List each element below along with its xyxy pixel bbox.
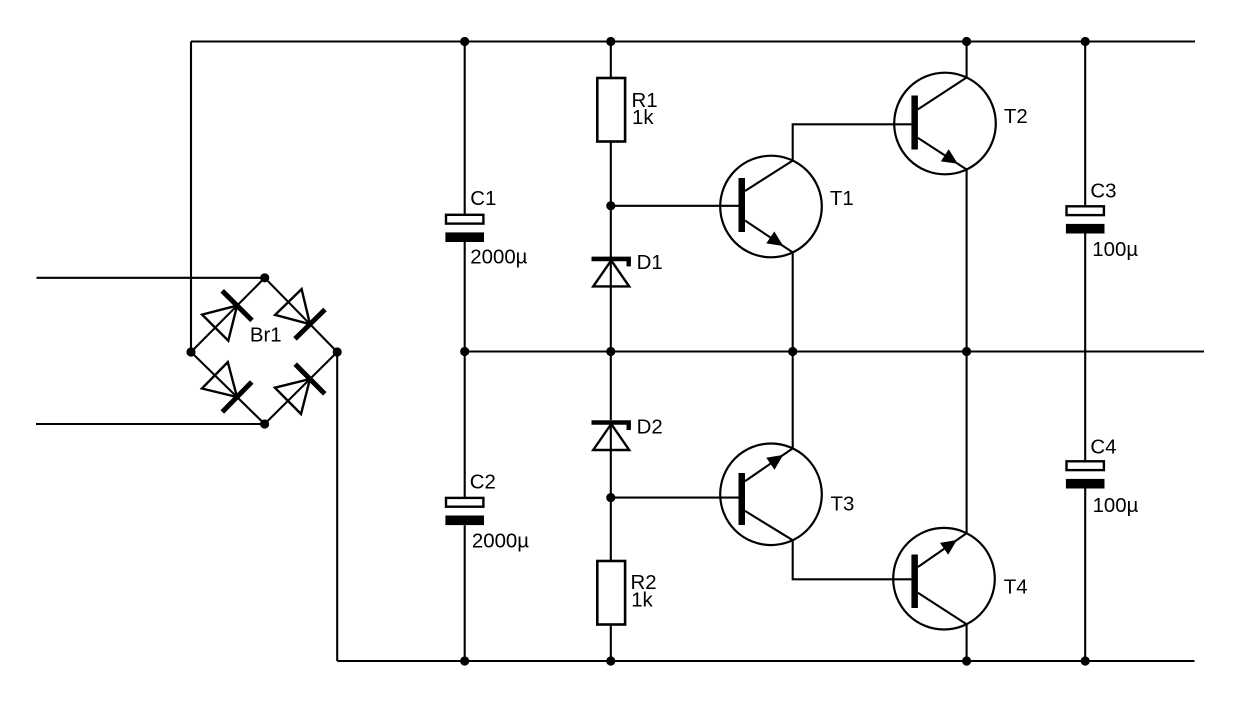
zener diode D2 [592, 423, 631, 451]
svg-text:C2: C2 [470, 472, 496, 494]
svg-text:1k: 1k [632, 107, 654, 129]
svg-text:100µ: 100µ [1092, 239, 1138, 261]
node: bridge left (+ output) [186, 347, 195, 356]
capacitor C4 [1066, 461, 1105, 488]
svg-text:C3: C3 [1090, 180, 1116, 202]
junction: middle rail / T2 emitter / T4 [962, 347, 971, 356]
capacitor C2 [445, 498, 484, 525]
resistor R1 [597, 78, 625, 142]
svg-text:2000µ: 2000µ [470, 247, 527, 269]
bridge rectifier Br1 diode (left to top) [202, 291, 252, 341]
wire: T3 base from D2 junction [611, 497, 739, 499]
svg-text:T4: T4 [1004, 577, 1028, 599]
svg-text:2000µ: 2000µ [472, 531, 529, 553]
junction: bottom rail / T4 emitter [962, 656, 971, 665]
junction: bottom rail / C2 [460, 656, 469, 665]
wire: C4 to bottom rail [1084, 489, 1086, 662]
wire: top positive rail [191, 40, 1195, 42]
wire: T3 collector up to middle rail [792, 352, 794, 449]
junction: middle rail / T1 emitter / T3 [788, 347, 797, 356]
wire: AC input 2 [36, 423, 265, 425]
svg-text:T2: T2 [1004, 106, 1028, 128]
junction: bottom rail / R2 [606, 656, 615, 665]
bridge rectifier Br1 diode (bottom to right) [275, 364, 325, 414]
svg-text:D1: D1 [637, 252, 663, 274]
transistor T4 [893, 528, 995, 630]
capacitor C1 [445, 215, 484, 242]
svg-text:Br1: Br1 [250, 325, 282, 347]
wire: bridge edge top-right [265, 278, 338, 352]
junction: bottom rail / C4 [1081, 656, 1090, 665]
svg-text:1k: 1k [631, 590, 653, 612]
wire: C1 to middle rail to C2 [464, 242, 466, 498]
svg-text:100µ: 100µ [1093, 495, 1139, 517]
node: bridge top (AC input 1) [260, 273, 269, 282]
junction: top rail / T2 collector [962, 37, 971, 46]
junction: top rail / R1 [606, 37, 615, 46]
wire: bottom negative rail [337, 660, 1194, 662]
wire: top rail to C3 [1084, 42, 1086, 207]
wire: T1 emitter down to middle rail [792, 252, 794, 351]
wire: bridge edge bottom-right [265, 352, 338, 424]
junction: D2-R2 / T3 base [606, 493, 615, 502]
zener diode D1 [592, 259, 631, 287]
wire: left vertical from bridge + node to top rail [190, 42, 192, 353]
junction: top rail / C3 [1081, 37, 1090, 46]
wire: C3 to C4 (crosses middle rail) [1084, 234, 1086, 462]
node: bridge bottom (AC input 2) [260, 419, 269, 428]
resistor R2 [597, 561, 625, 625]
transistor T3 [720, 444, 822, 546]
junction: middle rail / C1-C2 [460, 347, 469, 356]
wire: T4 emitter down to bottom rail [966, 624, 968, 661]
transistor T2 [894, 73, 996, 175]
svg-text:D2: D2 [637, 417, 663, 439]
wire: AC input 1 [37, 277, 265, 279]
bridge rectifier Br1 diode (left to bottom) [202, 362, 252, 412]
transistor T1 [720, 156, 822, 258]
wire: top rail to C1 [464, 42, 466, 215]
capacitor C3 [1066, 206, 1105, 233]
svg-text:C4: C4 [1090, 437, 1116, 459]
wire: right vertical from bridge - node to bottom rail [336, 352, 338, 661]
svg-text:T1: T1 [830, 188, 854, 210]
wire: T4 collector up to middle rail [966, 352, 968, 534]
svg-text:T3: T3 [831, 494, 855, 516]
junction: R1-D1 / T1 base [606, 201, 615, 210]
wire: bridge edge left-top [191, 278, 265, 352]
wire: middle 0V rail [465, 350, 1204, 352]
junction: top rail / C1 [460, 37, 469, 46]
node: bridge right (- output) [333, 347, 342, 356]
wire: T3 emitter down and right to T4 base [793, 540, 912, 579]
svg-text:C1: C1 [470, 188, 496, 210]
wire: T1 collector up and right to T2 base [793, 124, 912, 160]
wire: T1 base from D1 junction [611, 205, 739, 207]
wire: T2 collector to top rail [966, 42, 968, 78]
junction: middle rail / D1-D2 [606, 347, 615, 356]
wire: R1-D1-D2-R2 column [610, 42, 612, 79]
wire: bridge edge left-bottom [191, 352, 265, 424]
wire: C2 to bottom rail [464, 525, 466, 661]
bridge rectifier Br1 diode (top to right) [275, 289, 325, 339]
wire: T2 emitter down to middle rail [966, 170, 968, 352]
